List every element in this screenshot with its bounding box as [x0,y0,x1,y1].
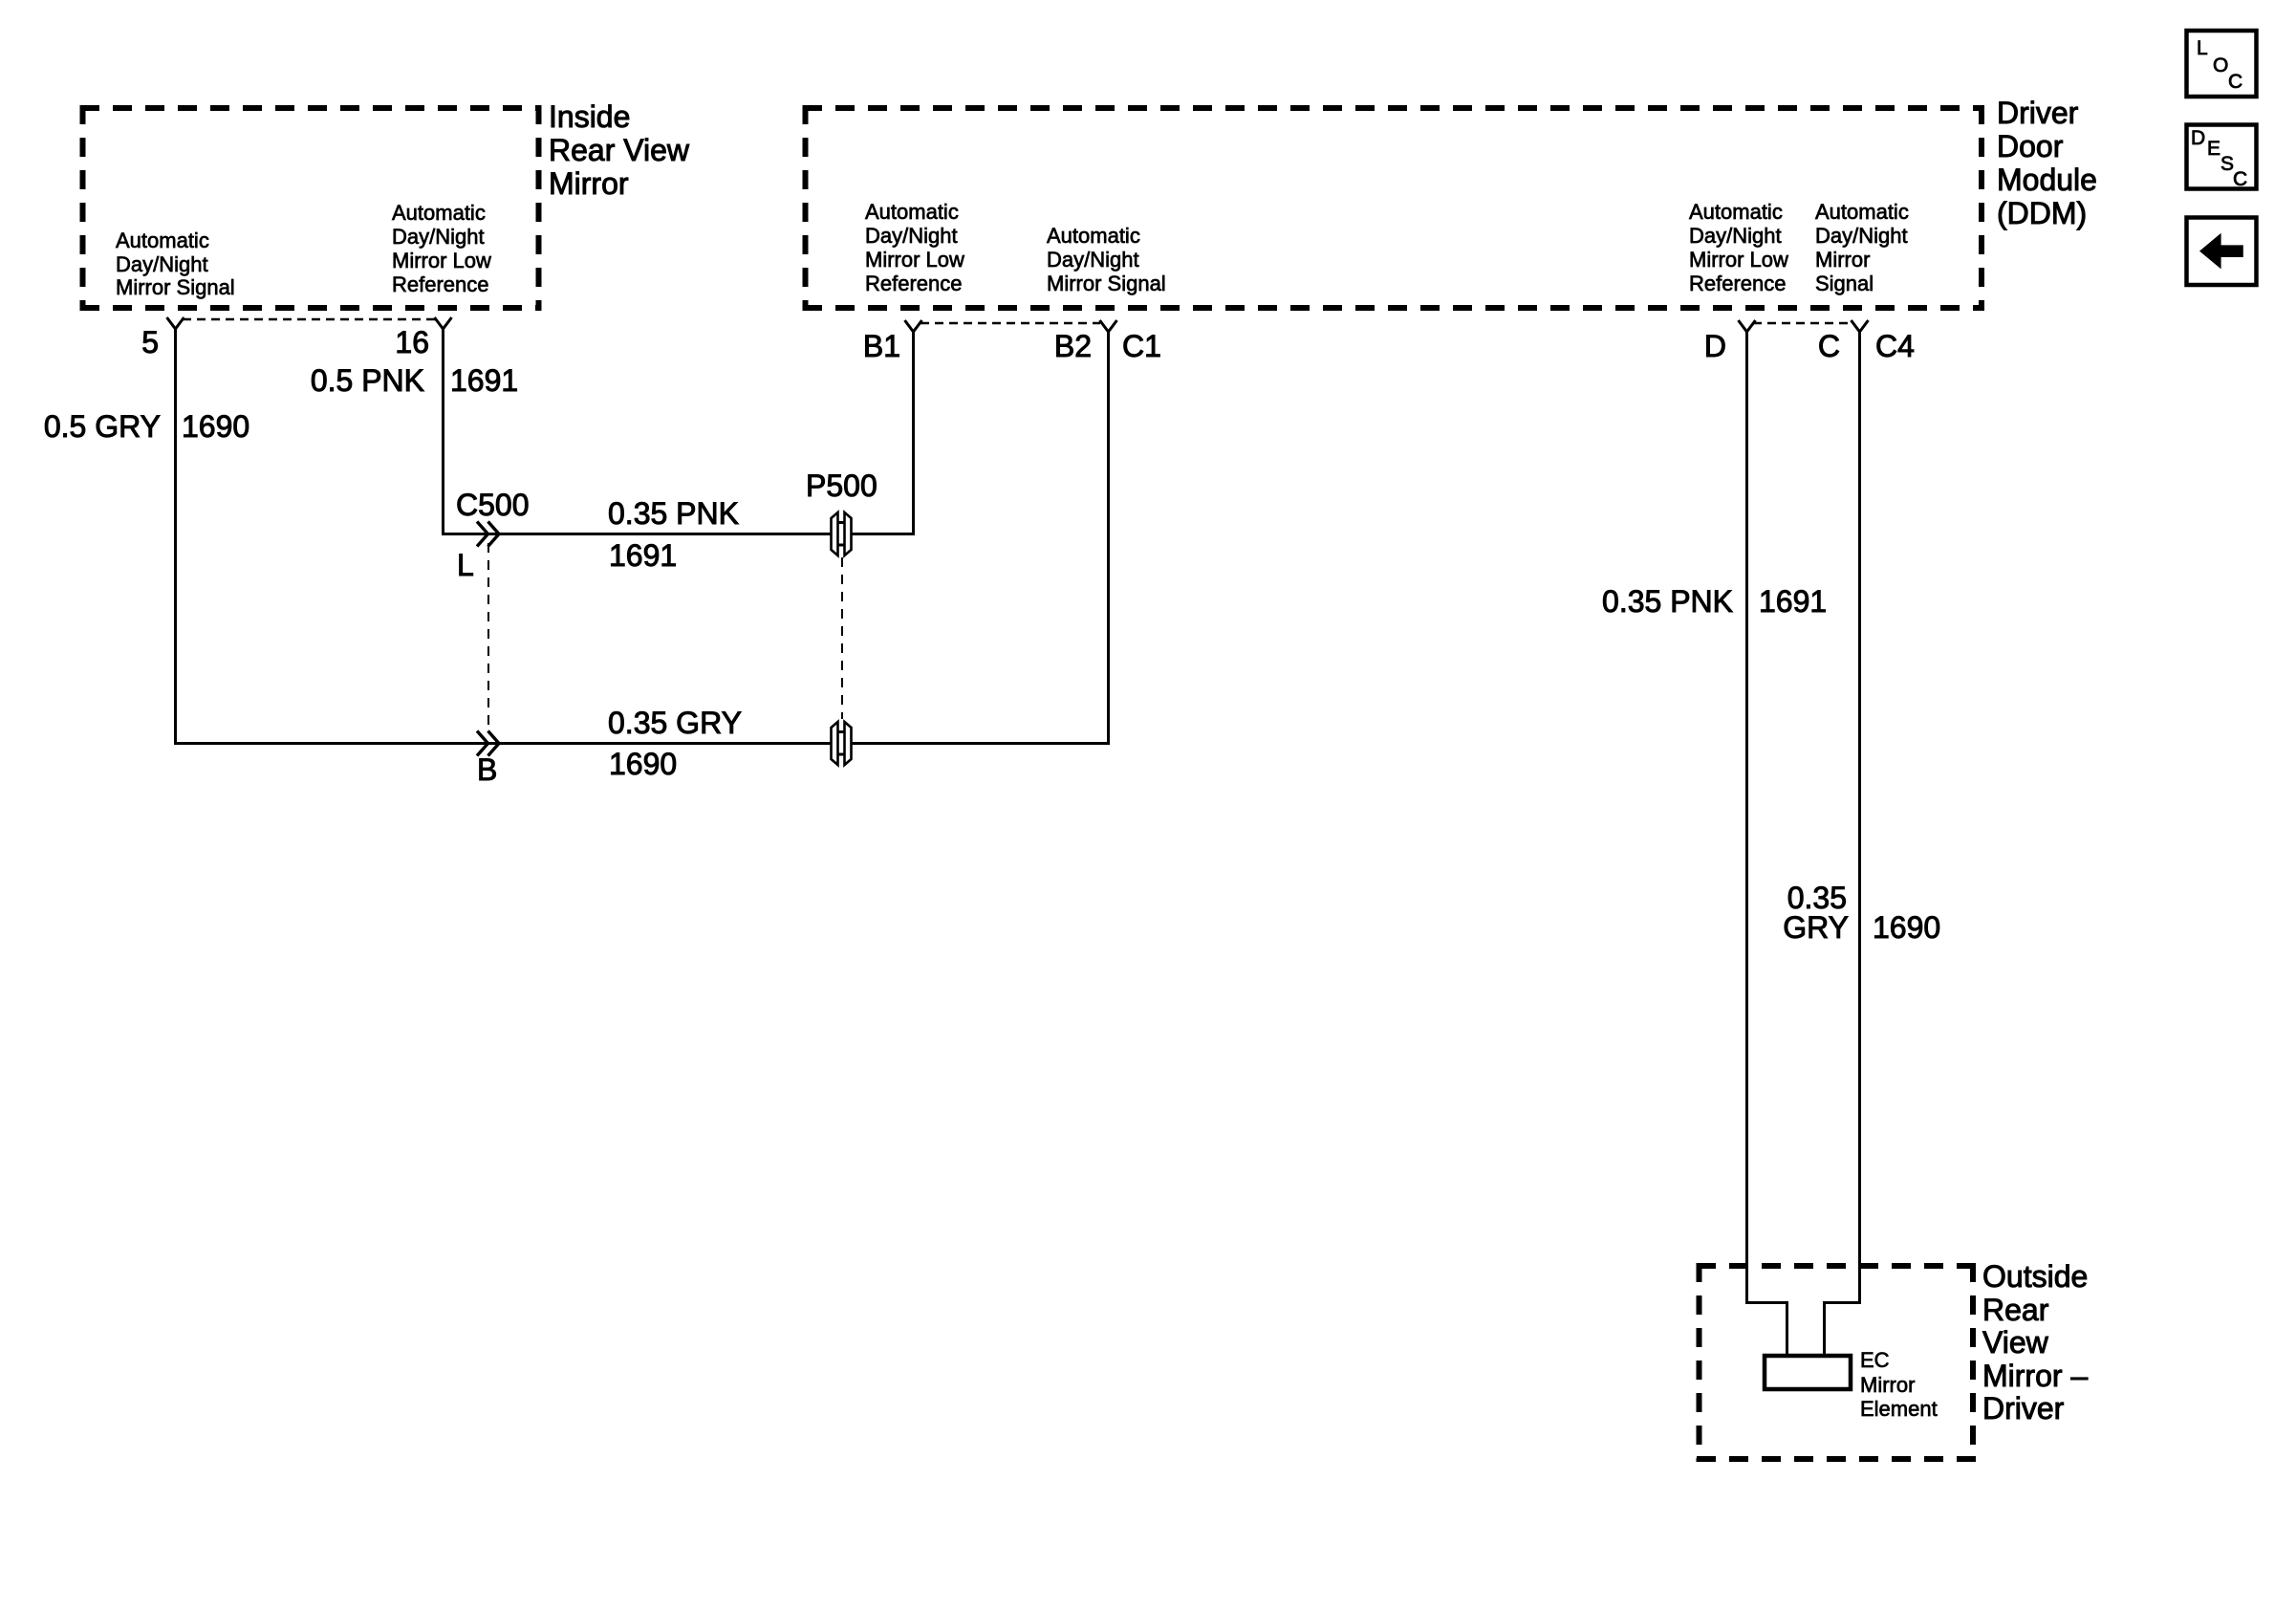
svg-text:Driver: Driver [1982,1391,2065,1426]
svg-text:Automatic: Automatic [116,229,209,252]
svg-text:0.35 PNK: 0.35 PNK [1602,584,1733,619]
wire: 0.5 PNK 1691 from pin 16 down/right to pin B1 [444,329,914,534]
svg-text:Day/Night: Day/Night [865,224,958,248]
EC Mirror Element box [1765,1356,1851,1389]
svg-text:C: C [2233,168,2247,190]
svg-text:1690: 1690 [1873,910,1940,945]
svg-text:Driver: Driver [1997,96,2079,130]
svg-text:Reference: Reference [865,272,963,295]
svg-text:Automatic: Automatic [1689,200,1783,224]
splice pass-through P500 on PNK wire [832,512,852,555]
component box: Inside Rear View Mirror [80,105,541,311]
pin 16 connector Y [435,317,452,329]
pin D connector Y [1739,320,1756,332]
svg-text:Outside: Outside [1982,1259,2088,1294]
pin B2/C1 connector Y [1100,320,1117,332]
svg-text:Day/Night: Day/Night [1047,248,1139,272]
svg-text:0.35 GRY: 0.35 GRY [608,706,742,740]
pin 5 connector Y [167,317,184,329]
svg-text:B2: B2 [1054,329,1092,363]
svg-text:16: 16 [395,325,429,359]
icon: DESC box [2187,125,2257,189]
svg-text:Day/Night: Day/Night [1689,224,1782,248]
component box: Outside Rear View Mirror - Driver [1697,1263,1976,1462]
svg-text:Element: Element [1860,1397,1938,1421]
svg-text:EC: EC [1860,1348,1890,1372]
svg-text:D: D [1704,329,1726,363]
splice pass-through on GRY wire [832,722,852,765]
svg-text:Rear View: Rear View [549,133,690,167]
component box: Driver Door Module (DDM) [803,105,1984,311]
svg-text:1691: 1691 [609,538,677,573]
svg-text:E: E [2207,138,2220,160]
svg-text:Rear: Rear [1982,1293,2049,1327]
svg-text:Reference: Reference [392,272,489,296]
svg-text:B: B [477,752,497,787]
svg-text:D: D [2191,127,2205,149]
dashed link between P500 symbols [841,557,843,719]
svg-text:B1: B1 [863,329,900,363]
svg-text:C500: C500 [456,488,530,522]
svg-text:Module: Module [1997,163,2097,197]
pin B1 connector Y [905,320,922,332]
label: Automatic Day/Night Mirror Signal (inside left box) [116,229,235,299]
svg-text:View: View [1982,1325,2049,1360]
svg-text:Mirror Low: Mirror Low [1689,248,1788,272]
svg-text:Automatic: Automatic [392,201,486,225]
svg-text:Mirror Low: Mirror Low [392,249,491,272]
label: Automatic Day/Night Mirror Signal (above pin B2) [1047,224,1166,295]
svg-text:Mirror –: Mirror – [1982,1359,2088,1393]
svg-text:C: C [1818,329,1840,363]
label: Inside Rear View Mirror [549,99,690,201]
connector dashed line under DDM box (D-C) [1753,322,1852,325]
svg-text:Automatic: Automatic [1815,200,1909,224]
connector C500 pin B (inline arrows on GRY wire) [477,731,499,756]
svg-text:Reference: Reference [1689,272,1787,295]
svg-text:0.5 PNK: 0.5 PNK [311,363,424,398]
svg-text:S: S [2220,153,2234,175]
svg-text:Signal: Signal [1815,272,1874,295]
label: Automatic Day/Night Mirror Low Reference (inside left box) [392,201,491,296]
svg-text:C1: C1 [1122,329,1161,363]
svg-text:L: L [457,548,474,582]
wire: 0.35 PNK 1691 from pin D down to EC mirror element [1747,332,1787,1354]
icon: back arrow box [2187,218,2257,286]
svg-text:Mirror: Mirror [549,166,629,201]
connector dashed line under DDM box (B1-B2) [921,322,1100,325]
svg-text:C4: C4 [1875,329,1915,363]
svg-text:Day/Night: Day/Night [116,252,208,276]
label: Outside Rear View Mirror - Driver [1982,1259,2088,1426]
label: Automatic Day/Night Mirror Low Reference (above pin D) [1689,200,1788,295]
svg-text:0.35 PNK: 0.35 PNK [608,496,739,531]
svg-text:Mirror Low: Mirror Low [865,248,964,272]
svg-text:C: C [2228,71,2242,93]
svg-text:1691: 1691 [1759,584,1827,619]
label: Driver Door Module (DDM) [1997,96,2097,230]
svg-text:(DDM): (DDM) [1997,196,2087,230]
label: EC Mirror Element [1860,1348,1938,1421]
svg-text:Day/Night: Day/Night [1815,224,1908,248]
dashed link between C500 arrows [487,543,489,727]
connector C500 pin L (inline arrows on PNK wire) [477,522,499,547]
svg-text:5: 5 [141,325,159,359]
svg-text:Mirror Signal: Mirror Signal [1047,272,1166,295]
svg-text:1691: 1691 [450,363,518,398]
svg-text:Mirror Signal: Mirror Signal [116,275,235,299]
svg-text:Automatic: Automatic [1047,224,1140,248]
svg-text:Door: Door [1997,129,2064,163]
svg-text:0.5 GRY: 0.5 GRY [44,409,161,444]
icon: back arrow [2199,233,2243,270]
svg-text:P500: P500 [806,468,877,503]
svg-text:GRY: GRY [1783,910,1849,945]
pin C/C4 connector Y [1852,320,1869,332]
wire: 0.35 GRY 1690 from pin C4 down to EC mirror element [1825,332,1860,1354]
svg-text:1690: 1690 [609,747,677,781]
svg-text:Day/Night: Day/Night [392,225,485,249]
connector dashed line under Inside Rear View Mirror box [183,318,436,321]
svg-text:L: L [2197,37,2208,59]
svg-text:Mirror: Mirror [1860,1373,1915,1397]
svg-text:Inside: Inside [549,99,630,134]
icon: LOC box [2187,31,2257,97]
label: Automatic Day/Night Mirror Low Reference (above pin B1) [865,200,964,295]
wire: 0.5 GRY 1690 from pin 5 down/right to pin B2/C1 [176,329,1109,744]
svg-text:Mirror: Mirror [1815,248,1870,272]
svg-text:1690: 1690 [182,409,249,444]
label: Automatic Day/Night Mirror Signal (above pin C) [1815,200,1909,295]
svg-text:O: O [2213,54,2228,76]
svg-text:Automatic: Automatic [865,200,959,224]
